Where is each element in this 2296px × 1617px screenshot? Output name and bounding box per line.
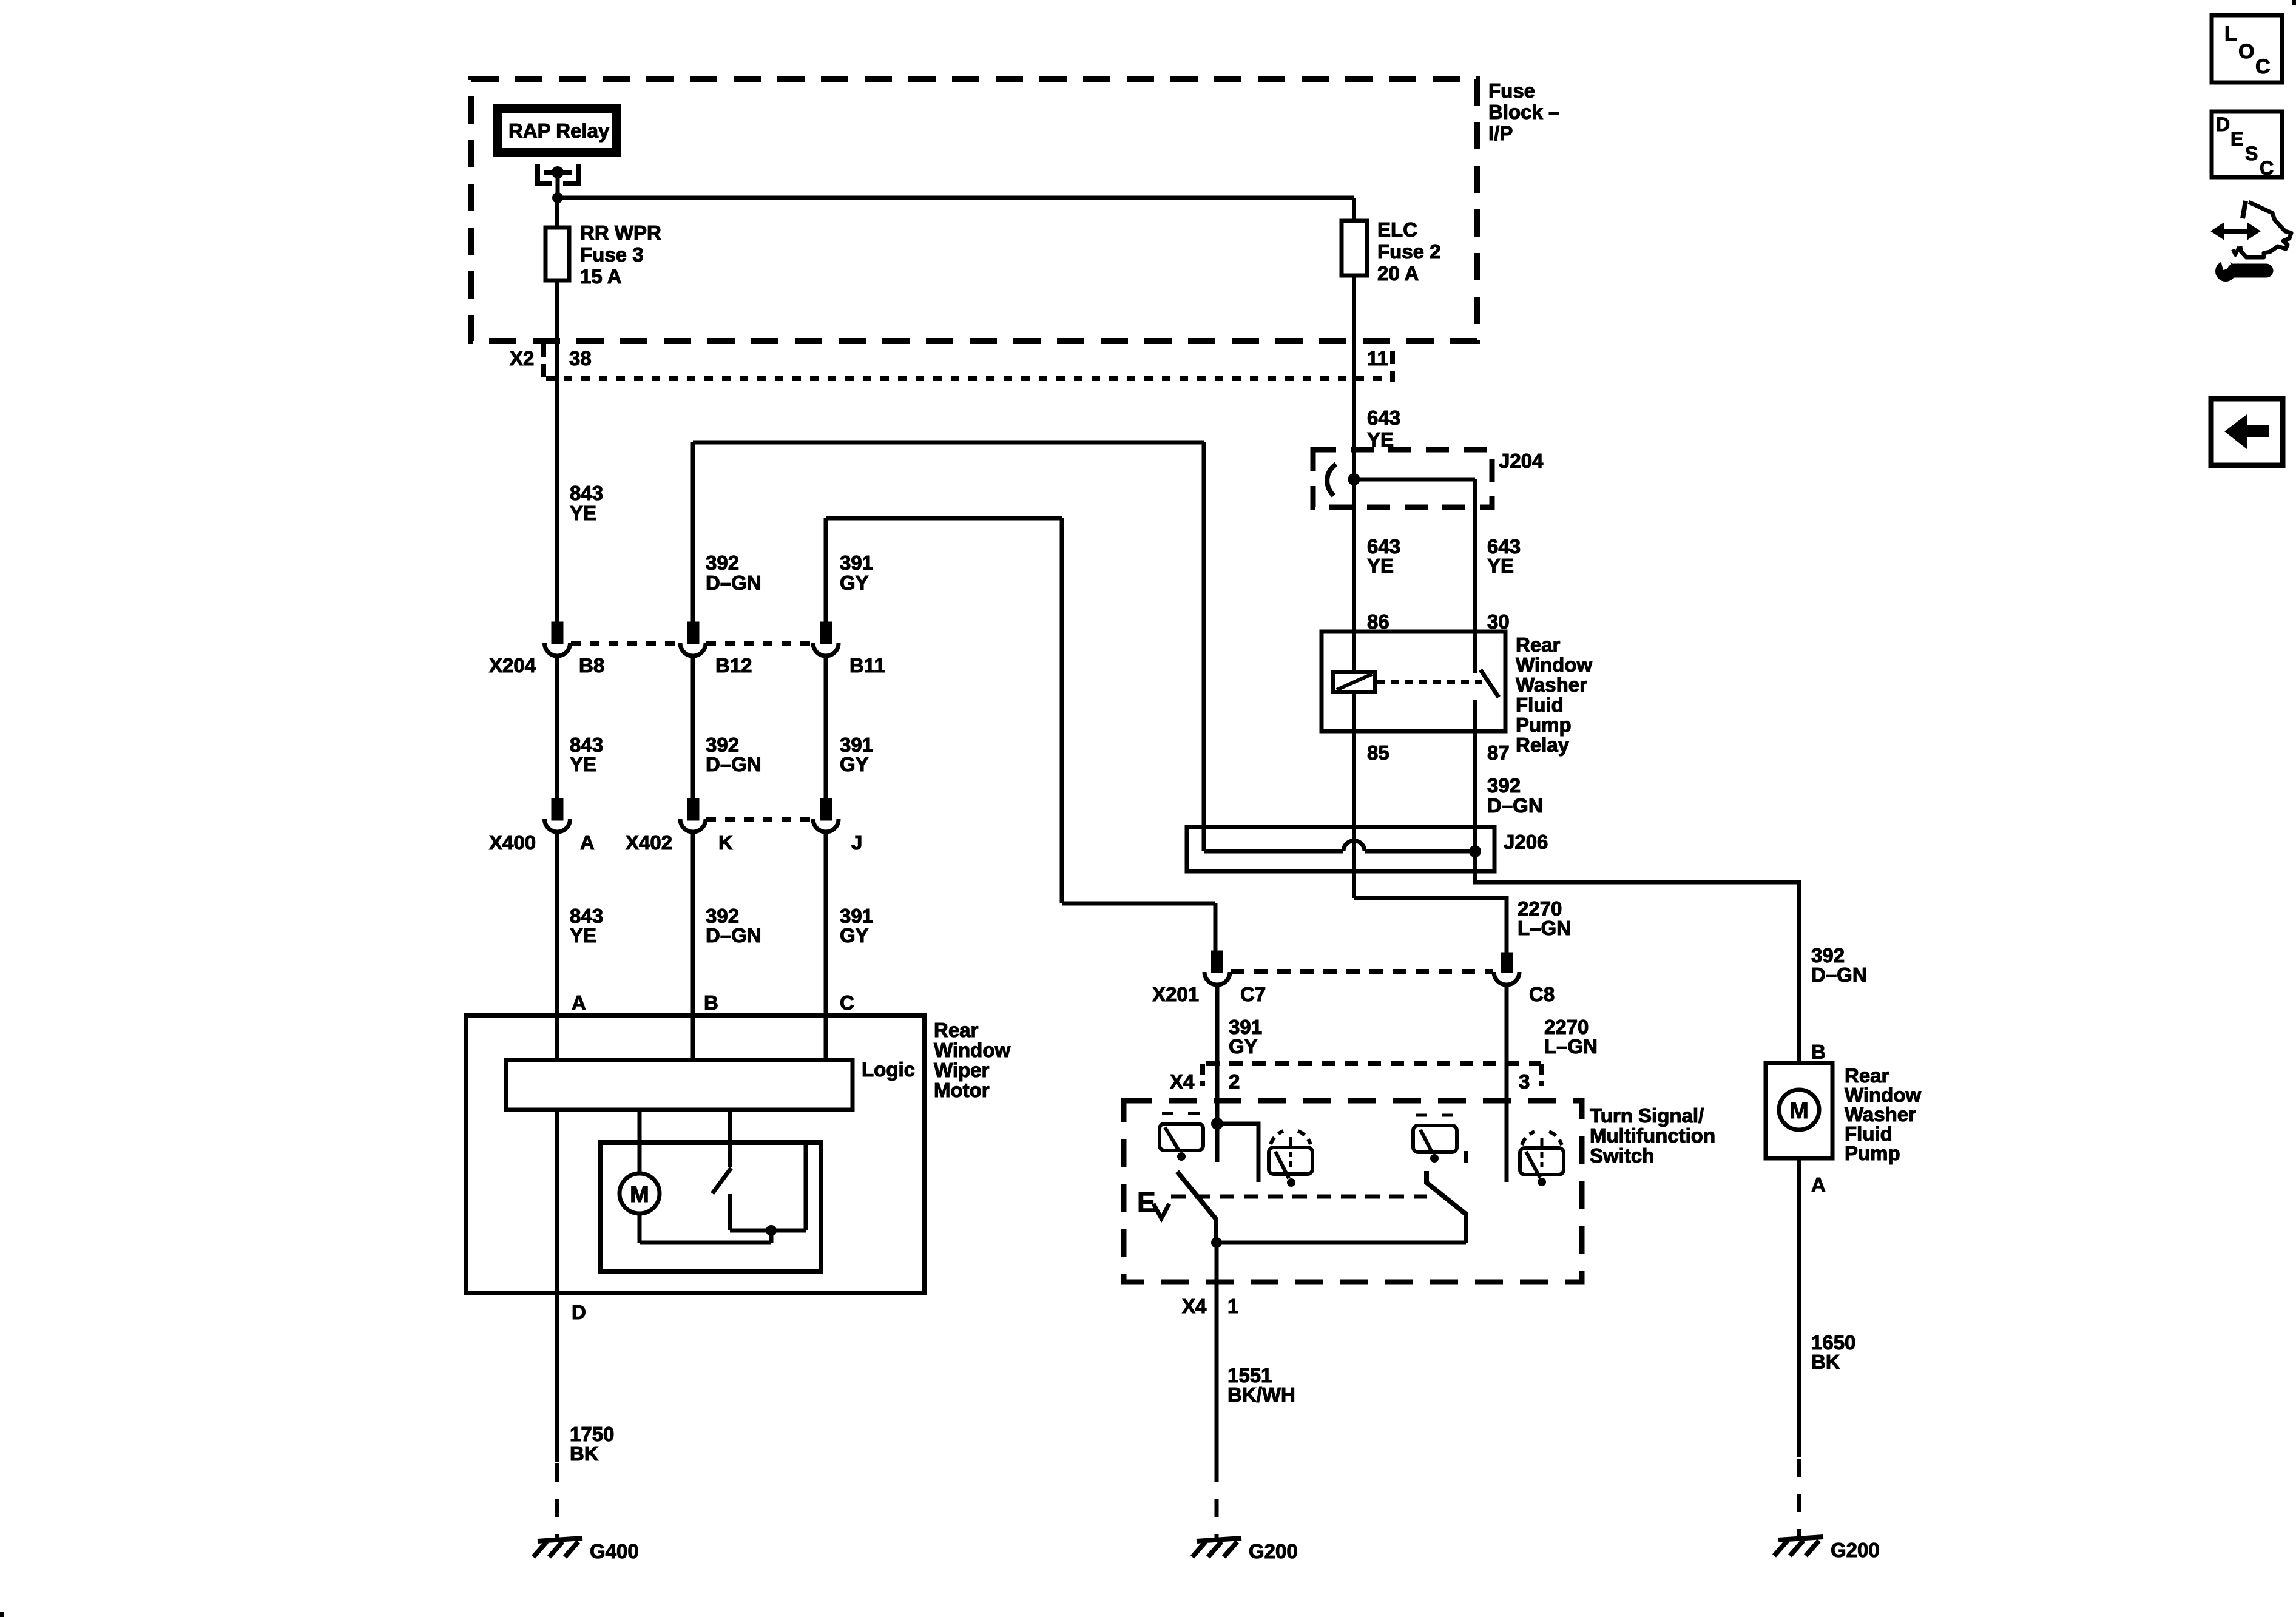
icon LOC box — [2212, 15, 2282, 83]
svg-text:X2: X2 — [510, 347, 534, 370]
wire X402-K to wiper motor B — [691, 832, 695, 1060]
svg-text:Fluid: Fluid — [1516, 694, 1564, 716]
svg-text:B12: B12 — [715, 654, 752, 677]
wire label 843 YE upper — [570, 482, 603, 524]
svg-text:G200: G200 — [1249, 1540, 1298, 1562]
wire label 843 YE lower — [570, 905, 603, 947]
svg-text:1: 1 — [1227, 1295, 1238, 1317]
svg-text:Multifunction: Multifunction — [1590, 1124, 1715, 1147]
svg-text:E: E — [1137, 1186, 1156, 1218]
svg-text:X201: X201 — [1152, 983, 1199, 1005]
wire C7 stub — [1215, 1124, 1220, 1162]
svg-text:D: D — [572, 1301, 586, 1323]
connector X201 dashed line — [1231, 969, 1493, 974]
ground G400 — [533, 1538, 582, 1557]
svg-text:86: 86 — [1367, 610, 1389, 633]
svg-text:C: C — [2260, 157, 2274, 179]
svg-text:Block –: Block – — [1488, 101, 1559, 123]
wire 391 GY down to B11 — [824, 518, 828, 624]
wire 392 D-GN horizontal to J206 riser — [693, 441, 1204, 445]
wire 391 GY horizontal to C7 riser — [826, 516, 1062, 521]
wire riser corner to C7 — [1062, 902, 1215, 906]
svg-text:BK: BK — [1811, 1351, 1840, 1373]
wire riser down toward X201-C7 — [1060, 518, 1064, 903]
svg-text:Window: Window — [1516, 653, 1592, 676]
washer pump M circle — [1779, 1090, 1819, 1130]
svg-text:391: 391 — [840, 552, 873, 574]
relay pin labels 85 87 — [1367, 741, 1510, 764]
connector X4-1 labels — [1182, 1295, 1238, 1317]
icon back arrow — [2224, 414, 2269, 449]
wire label 643 YE left below J204 — [1367, 535, 1400, 577]
motor M circle — [620, 1173, 660, 1214]
icon DESC letters — [2216, 113, 2274, 179]
turn signal multifunction switch dashed box — [1124, 1101, 1582, 1282]
svg-text:392: 392 — [706, 552, 739, 574]
relay coil — [1333, 672, 1375, 692]
connector pin 11 separator — [1390, 351, 1395, 382]
svg-text:X4: X4 — [1182, 1295, 1207, 1317]
wire label 643 YE above J204 — [1367, 407, 1400, 451]
connector X400 pin A — [553, 800, 561, 819]
svg-text:YE: YE — [570, 753, 596, 775]
wire label 1650 BK — [1811, 1331, 1855, 1373]
svg-text:Pump: Pump — [1516, 714, 1572, 736]
junction dot park contact — [766, 1225, 777, 1236]
wire park contact horizontal — [730, 1229, 806, 1233]
wire B12 to X402-K — [691, 656, 695, 800]
svg-text:G400: G400 — [590, 1540, 639, 1562]
svg-text:YE: YE — [1367, 555, 1394, 577]
icon hand outline — [2240, 202, 2291, 257]
washer symbol 2 — [1269, 1131, 1312, 1187]
wire motor bottom horizontal — [640, 1241, 771, 1245]
svg-text:C7: C7 — [1240, 983, 1266, 1005]
wire label 392 D-GN pump feed — [1811, 944, 1867, 986]
wire junction to ELC branch — [558, 196, 1354, 200]
connector X402 pin K — [689, 800, 697, 819]
washer pump relay box — [1322, 632, 1505, 731]
svg-text:L: L — [2224, 22, 2237, 46]
icon wrench head — [2215, 261, 2236, 282]
svg-text:D–GN: D–GN — [706, 753, 761, 775]
wire label 391 GY lower — [840, 905, 873, 947]
wire label 392 D-GN mid — [706, 734, 761, 775]
connector X204 pin B12 — [689, 624, 697, 642]
wiper motor pin labels A B C — [572, 991, 854, 1014]
fuse F3 RR WPR — [545, 228, 569, 280]
icon service arrow — [2210, 222, 2261, 240]
RAP relay pedestal symbol — [535, 164, 581, 186]
icon hand thumb — [2243, 201, 2246, 218]
connector X201 pin C7 — [1214, 953, 1221, 971]
svg-text:Wiper: Wiper — [934, 1059, 990, 1081]
svg-text:GY: GY — [1229, 1035, 1258, 1058]
svg-text:L–GN: L–GN — [1544, 1035, 1598, 1058]
fuse F2 label — [1377, 218, 1441, 285]
wire park contact L — [728, 1194, 732, 1230]
svg-text:392: 392 — [1487, 774, 1521, 797]
svg-text:843: 843 — [570, 482, 603, 504]
EV position symbol — [1137, 1186, 1156, 1218]
washer pump relay label — [1516, 633, 1592, 756]
svg-text:B: B — [704, 991, 718, 1014]
fuse F3 label — [580, 221, 661, 288]
svg-text:Relay: Relay — [1516, 734, 1570, 756]
wire park contact junction riser — [769, 1229, 774, 1243]
svg-text:Turn Signal/: Turn Signal/ — [1590, 1104, 1704, 1127]
wire label 392 D-GN below relay — [1487, 774, 1543, 817]
connector X201 labels — [1152, 983, 1555, 1005]
wire label 391 GY mid — [840, 734, 873, 775]
svg-text:G200: G200 — [1831, 1539, 1880, 1561]
svg-text:X4: X4 — [1170, 1070, 1195, 1093]
svg-text:20 A: 20 A — [1377, 262, 1419, 285]
wire label 843 YE mid — [570, 734, 603, 775]
connector X204 dashed line 2 — [706, 641, 812, 646]
svg-text:30: 30 — [1487, 610, 1510, 633]
connector X4 labels — [1170, 1070, 1530, 1093]
icon DESC box — [2212, 112, 2282, 177]
svg-text:E: E — [2230, 128, 2243, 150]
svg-text:X400: X400 — [489, 831, 536, 854]
rear window wiper motor label — [934, 1019, 1010, 1101]
fuse F2 ELC — [1342, 221, 1367, 275]
wire motor D down — [555, 1293, 559, 1462]
connector X204 labels — [489, 654, 885, 677]
svg-text:Fuse: Fuse — [1488, 79, 1535, 102]
svg-text:J204: J204 — [1499, 450, 1544, 472]
svg-text:GY: GY — [840, 572, 869, 594]
wire label 643 YE right below J204 — [1487, 535, 1521, 577]
svg-text:A: A — [572, 991, 586, 1014]
wire label 391 GY upper — [840, 552, 873, 594]
svg-text:C8: C8 — [1529, 983, 1555, 1005]
connector X4 separator right — [1539, 1064, 1544, 1086]
wire C7 branch right — [1217, 1124, 1258, 1182]
EV check mark — [1153, 1204, 1169, 1218]
wire B11 to X402-J — [824, 656, 828, 800]
wire relay 87 down — [1473, 700, 1477, 851]
junction dot J206 — [1469, 845, 1481, 857]
junction dot switch common — [1211, 1237, 1222, 1248]
park switch blade — [712, 1168, 731, 1193]
wire inner box right contact — [804, 1143, 808, 1230]
svg-text:Rear: Rear — [934, 1019, 979, 1041]
wire switch common horizontal — [1217, 1241, 1466, 1245]
connector X204 dashed line — [571, 641, 680, 646]
svg-text:Pump: Pump — [1845, 1142, 1900, 1164]
splice J206 hop over 85 wire — [1343, 841, 1365, 851]
connector X204 pin B11 — [822, 624, 830, 642]
svg-text:B11: B11 — [849, 654, 885, 677]
wire blade to junction — [1214, 1218, 1218, 1243]
svg-text:I/P: I/P — [1488, 122, 1513, 144]
svg-text:L–GN: L–GN — [1518, 917, 1571, 939]
svg-text:15 A: 15 A — [580, 265, 621, 288]
fuse block lower dotted edge — [546, 376, 1386, 381]
svg-text:D: D — [2216, 113, 2230, 135]
wire label 2270 L-GN upper — [1518, 897, 1571, 939]
svg-text:B8: B8 — [579, 654, 604, 677]
connector X201 pin C8 — [1503, 954, 1511, 971]
switch blade right — [1427, 1171, 1466, 1243]
RAP Relay box — [498, 109, 616, 152]
svg-text:RR WPR: RR WPR — [580, 221, 661, 244]
wire label 392 D-GN upper — [706, 552, 761, 594]
svg-text:S: S — [2245, 143, 2258, 164]
wire switch common down — [1215, 1243, 1219, 1463]
wire X402-J to wiper motor C — [824, 832, 828, 1060]
svg-text:X402: X402 — [626, 831, 672, 854]
svg-text:O: O — [2238, 40, 2254, 63]
svg-text:D–GN: D–GN — [1811, 964, 1867, 986]
wire C8 down into switch — [1505, 985, 1509, 1182]
turn signal switch label — [1590, 1104, 1715, 1167]
splice J206 box — [1187, 827, 1494, 871]
wire label 392 D-GN lower — [706, 905, 761, 947]
svg-text:GY: GY — [840, 924, 869, 947]
icon LOC letters — [2224, 22, 2271, 78]
svg-text:K: K — [718, 831, 733, 854]
svg-text:85: 85 — [1367, 741, 1389, 764]
svg-text:YE: YE — [570, 502, 596, 524]
connector X2 pin labels — [510, 347, 1388, 370]
Fuse Block label — [1488, 79, 1559, 144]
svg-text:Motor: Motor — [934, 1079, 990, 1101]
svg-text:C: C — [2255, 55, 2271, 78]
connector X402 pin J — [822, 800, 830, 819]
washer symbol 4 — [1520, 1132, 1564, 1186]
corner mark top right — [2292, 0, 2296, 5]
relay coil-contact dashed link — [1377, 680, 1482, 684]
svg-text:C: C — [840, 991, 854, 1014]
svg-text:Window: Window — [934, 1039, 1010, 1061]
wire logic to park switch — [728, 1110, 732, 1167]
splice J204 clip symbol — [1327, 464, 1336, 496]
connector X204 pin B8 — [553, 624, 561, 642]
svg-text:Switch: Switch — [1590, 1144, 1654, 1167]
svg-text:Washer: Washer — [1516, 673, 1587, 696]
wiper symbol 1 — [1160, 1113, 1203, 1161]
relay switch blade — [1481, 670, 1499, 697]
wire J204 branch horizontal — [1354, 478, 1476, 482]
washer pump label — [1845, 1064, 1921, 1164]
splice J206 internal wire left — [1204, 849, 1343, 854]
svg-text:A: A — [1811, 1173, 1826, 1196]
wire dashed to G200 right — [1797, 1459, 1801, 1538]
junction dot — [552, 192, 563, 203]
wire C7 down to switch — [1215, 985, 1220, 1124]
wire label 1551 BK/WH — [1227, 1364, 1295, 1406]
wire 85 corner to C8 — [1354, 898, 1507, 954]
wire riser down to J206 — [1202, 442, 1206, 851]
svg-text:11: 11 — [1367, 347, 1388, 370]
splice J204 dashed box — [1313, 450, 1492, 507]
svg-text:D–GN: D–GN — [706, 572, 761, 594]
wire down to ELC fuse — [1352, 198, 1356, 221]
svg-text:M: M — [630, 1182, 649, 1207]
ground G200 right — [1774, 1537, 1823, 1556]
svg-text:GY: GY — [840, 753, 869, 775]
junction dot C7 switch — [1211, 1118, 1223, 1130]
svg-text:ELC: ELC — [1377, 218, 1417, 241]
corner mark bottom left — [0, 1612, 4, 1617]
rear window wiper motor box — [466, 1015, 924, 1293]
svg-text:YE: YE — [1487, 555, 1514, 577]
svg-text:87: 87 — [1487, 741, 1510, 764]
wiper symbol 3 — [1413, 1115, 1466, 1163]
icon back box — [2211, 399, 2283, 465]
wire junction down to fuse 3 — [555, 198, 559, 228]
ground G200 — [1192, 1538, 1241, 1557]
wire dashed to G400 — [555, 1463, 559, 1542]
svg-text:RAP Relay: RAP Relay — [508, 120, 610, 142]
wire label 391 GY at C7 — [1229, 1016, 1262, 1058]
svg-text:BK: BK — [570, 1442, 599, 1465]
svg-text:D–GN: D–GN — [1487, 794, 1543, 817]
logic box — [506, 1060, 853, 1110]
wire pump A down — [1797, 1158, 1801, 1457]
svg-text:BK/WH: BK/WH — [1227, 1383, 1295, 1406]
svg-text:Fuse 2: Fuse 2 — [1377, 240, 1441, 263]
washer pump box — [1766, 1063, 1832, 1158]
wire label 1750 BK — [570, 1423, 614, 1465]
wire dashed to G200 — [1215, 1463, 1219, 1542]
icon wrench handle — [2234, 264, 2266, 278]
svg-text:M: M — [1789, 1098, 1809, 1124]
wire logic to motor D — [555, 1110, 559, 1293]
junction dot J204 — [1348, 473, 1360, 485]
icon hand lower zigzag — [2233, 247, 2239, 255]
wire 392 D-GN down to B12 — [691, 442, 695, 624]
switch blade left — [1177, 1172, 1216, 1219]
splice J206 internal wire right — [1365, 849, 1475, 854]
svg-text:3: 3 — [1519, 1070, 1530, 1093]
wire fuse F2 down to relay coil — [1352, 275, 1356, 672]
svg-text:YE: YE — [570, 924, 596, 947]
svg-text:643: 643 — [1367, 407, 1400, 429]
svg-text:X204: X204 — [489, 654, 536, 677]
relay pin labels 86 30 — [1367, 610, 1510, 633]
wire down to X201-C7 — [1214, 903, 1218, 953]
wire X204-B8 to X400-A — [555, 656, 559, 800]
wire fuse F3 down to X204 — [555, 280, 559, 624]
wire RAP pedestal to junction — [556, 172, 560, 198]
svg-text:J206: J206 — [1504, 831, 1548, 853]
fuse block I/P dashed box — [471, 79, 1477, 341]
svg-text:J: J — [851, 831, 862, 854]
svg-text:Fuse 3: Fuse 3 — [580, 243, 644, 266]
wire motor M to bottom — [638, 1214, 642, 1243]
icon wrench jaw notch — [2220, 258, 2232, 270]
wire X400-A to wiper motor A — [555, 832, 559, 1060]
wire logic to motor M — [638, 1110, 642, 1173]
svg-text:2: 2 — [1229, 1070, 1240, 1093]
switch mechanical dashed link — [1171, 1195, 1427, 1199]
wire relay 85 down — [1352, 692, 1356, 898]
connector X402 dashed line — [706, 817, 812, 822]
svg-text:Logic: Logic — [862, 1058, 915, 1081]
svg-text:Rear: Rear — [1516, 633, 1561, 656]
wire label 2270 L-GN at C8 — [1544, 1016, 1598, 1058]
connector X4 separator left — [1200, 1064, 1205, 1086]
svg-text:38: 38 — [569, 347, 592, 370]
connector X4 dashed line — [1206, 1061, 1541, 1066]
motor inner box — [600, 1143, 821, 1271]
svg-text:A: A — [580, 831, 595, 854]
svg-text:B: B — [1811, 1041, 1826, 1063]
svg-text:D–GN: D–GN — [706, 924, 761, 947]
relay coil diagonal — [1337, 674, 1372, 690]
connector X400 labels — [489, 831, 862, 854]
connector X2 separator — [541, 343, 546, 382]
wire J206 to washer pump — [1475, 851, 1799, 1063]
wire J204 branch down to relay 30 — [1473, 479, 1477, 673]
